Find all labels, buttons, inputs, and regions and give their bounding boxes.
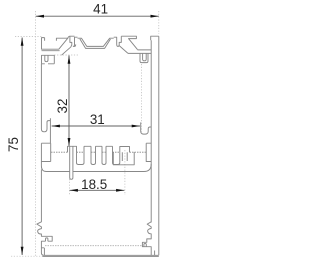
svg-text:18.5: 18.5 bbox=[81, 177, 107, 192]
svg-text:31: 31 bbox=[90, 112, 105, 127]
svg-text:75: 75 bbox=[6, 137, 21, 152]
svg-text:32: 32 bbox=[55, 99, 70, 114]
svg-text:41: 41 bbox=[93, 2, 108, 17]
